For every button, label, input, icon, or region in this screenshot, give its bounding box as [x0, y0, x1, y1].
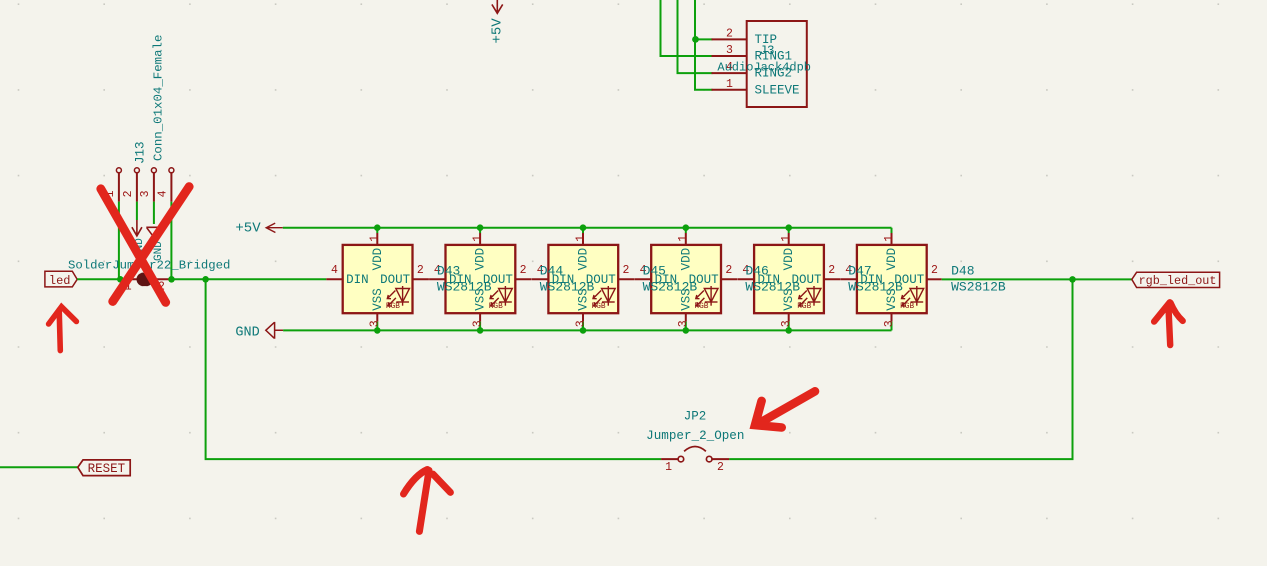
- wire: RESET: [0, 466, 78, 468]
- svg-text:2: 2: [726, 28, 733, 41]
- annotation: red arrow at rgb_led_out: [1154, 302, 1183, 345]
- wire: +5V rail: [283, 227, 892, 229]
- svg-text:1: 1: [665, 461, 672, 474]
- svg-text:Conn_01x04_Female: Conn_01x04_Female: [151, 35, 165, 161]
- svg-text:J13: J13: [133, 141, 147, 164]
- wire: JP2 to rgb_led_out net: [729, 279, 1072, 459]
- svg-text:2: 2: [417, 264, 424, 277]
- LED D48 WS2812B: [841, 228, 1006, 331]
- junction: JP1 pin2/J13 pin4: [168, 276, 175, 283]
- junction: +5V rail at D47: [785, 224, 792, 231]
- svg-text:2: 2: [725, 264, 732, 277]
- wire: J13 pin1 to led net: [118, 202, 120, 280]
- svg-text:1: 1: [471, 235, 484, 242]
- connector J13 Conn_01x04_Female: [104, 35, 174, 202]
- wire: junction to TIP: [695, 38, 713, 40]
- svg-text:VSS: VSS: [371, 288, 385, 311]
- svg-text:1: 1: [726, 78, 733, 91]
- svg-text:RGB: RGB: [386, 303, 400, 311]
- wire: jumper JP1 to LED chain DIN: [170, 278, 326, 280]
- junction: +5V rail at D45: [580, 224, 587, 231]
- svg-text:2: 2: [122, 190, 135, 197]
- wire: D48 DOUT to rgb_led_out: [942, 278, 1132, 280]
- svg-text:WS2812B: WS2812B: [437, 280, 492, 295]
- svg-text:JP2: JP2: [684, 410, 707, 424]
- svg-text:+5V: +5V: [490, 18, 506, 44]
- LED D46 WS2812B: [635, 228, 800, 331]
- junction: GND rail at D45: [580, 327, 587, 334]
- svg-text:WS2812B: WS2812B: [951, 280, 1006, 295]
- power GND on J13 pin3 (open triangle down): [146, 227, 165, 261]
- junction: +5V rail at D46: [683, 224, 690, 231]
- global label RESET: [78, 460, 130, 476]
- annotation: red arrow at JP2: [755, 391, 815, 427]
- LED D43 WS2812B: [326, 228, 491, 331]
- junction: led net to bottom wire: [202, 276, 209, 283]
- solder jumper JP1 SolderJumper22_Bridged: [68, 259, 230, 294]
- junction: TIP/SLEEVE net: [692, 36, 699, 43]
- svg-text:D46: D46: [745, 264, 768, 279]
- global label rgb_led_out: [1132, 272, 1220, 288]
- junction: led/JP1 pin1/J13 pin1: [117, 276, 124, 283]
- svg-text:3: 3: [369, 320, 382, 327]
- svg-text:1: 1: [677, 235, 690, 242]
- wire: net to SLEEVE: [695, 0, 713, 90]
- svg-text:3: 3: [726, 44, 733, 57]
- svg-text:3: 3: [780, 320, 793, 327]
- LED D45 WS2812B: [532, 228, 697, 331]
- junction: GND rail at D44: [477, 327, 484, 334]
- svg-text:2: 2: [623, 264, 630, 277]
- svg-text:3: 3: [883, 320, 896, 327]
- wire: J13 pin2 stub: [136, 202, 138, 220]
- svg-text:1: 1: [883, 235, 896, 242]
- svg-text:2: 2: [931, 264, 938, 277]
- svg-text:VDD: VDD: [371, 248, 385, 271]
- svg-text:rgb_led_out: rgb_led_out: [1139, 274, 1217, 288]
- svg-text:J3: J3: [760, 44, 775, 58]
- jumper JP2 Jumper_2_Open: [646, 410, 744, 475]
- svg-text:RGB: RGB: [592, 303, 606, 311]
- connector J3 AudioJack4dpb: [712, 21, 812, 107]
- power GND on J13 pin2 (arrow down): [132, 220, 146, 258]
- svg-text:2: 2: [520, 264, 527, 277]
- svg-text:AudioJack4dpb: AudioJack4dpb: [717, 61, 811, 75]
- power GND (rail, open triangle left): [235, 322, 283, 341]
- LED D44 WS2812B: [429, 228, 594, 331]
- svg-text:4: 4: [331, 264, 338, 277]
- svg-text:VDD: VDD: [885, 248, 899, 271]
- svg-text:D45: D45: [643, 264, 666, 279]
- svg-text:VDD: VDD: [679, 248, 693, 271]
- junction: +5V rail at D43: [374, 224, 381, 231]
- svg-text:D47: D47: [848, 264, 871, 279]
- annotation: red arrow bottom center: [404, 470, 451, 532]
- svg-text:led: led: [49, 274, 71, 288]
- power +5V (top, pointing down): [490, 0, 506, 44]
- annotation: red X over J13: [101, 187, 189, 303]
- svg-text:WS2812B: WS2812B: [745, 280, 800, 295]
- svg-text:RGB: RGB: [694, 303, 708, 311]
- wire: J13 pin4 to led net: [170, 202, 172, 280]
- svg-text:WS2812B: WS2812B: [643, 280, 698, 295]
- svg-text:D43: D43: [437, 264, 460, 279]
- global label led: [45, 271, 77, 288]
- svg-text:3: 3: [139, 190, 152, 197]
- junction: GND rail at D43: [374, 327, 381, 334]
- wire: led label to jumper JP1: [77, 278, 122, 280]
- svg-text:WS2812B: WS2812B: [848, 280, 903, 295]
- svg-text:VDD: VDD: [474, 248, 488, 271]
- wire: net to RING1 (vertical from top): [661, 0, 713, 56]
- svg-text:Jumper_2_Open: Jumper_2_Open: [646, 429, 744, 443]
- svg-text:4: 4: [157, 190, 170, 197]
- svg-text:DOUT: DOUT: [380, 273, 411, 287]
- svg-text:RGB: RGB: [797, 303, 811, 311]
- svg-text:2: 2: [717, 461, 724, 474]
- wire: J13 pin3 stub: [153, 202, 155, 224]
- svg-text:RESET: RESET: [88, 462, 126, 476]
- power +5V (rail, arrow left): [235, 221, 282, 237]
- svg-text:3: 3: [677, 320, 690, 327]
- svg-text:VDD: VDD: [576, 248, 590, 271]
- svg-text:DIN: DIN: [346, 273, 369, 287]
- wire: net to RING2: [678, 0, 713, 73]
- svg-text:RGB: RGB: [900, 303, 914, 311]
- LED D47 WS2812B: [738, 228, 903, 331]
- svg-text:3: 3: [471, 320, 484, 327]
- svg-text:1: 1: [369, 235, 382, 242]
- svg-text:VDD: VDD: [782, 248, 796, 271]
- junction: GND rail at D46: [683, 327, 690, 334]
- svg-text:+5V: +5V: [235, 221, 261, 237]
- junction: GND rail at D47: [785, 327, 792, 334]
- svg-text:3: 3: [574, 320, 587, 327]
- svg-text:1: 1: [574, 235, 587, 242]
- annotation: red arrow at led label: [49, 307, 77, 351]
- junction: +5V rail at D44: [477, 224, 484, 231]
- wire: led net down and along bottom to JP2: [206, 279, 661, 459]
- svg-text:WS2812B: WS2812B: [540, 280, 595, 295]
- svg-text:D44: D44: [540, 264, 564, 279]
- wire: GND rail: [283, 329, 891, 331]
- svg-text:RGB: RGB: [489, 303, 503, 311]
- svg-text:1: 1: [780, 235, 793, 242]
- junction: rgb_led_out to bottom wire: [1069, 276, 1076, 283]
- svg-text:SLEEVE: SLEEVE: [755, 83, 800, 97]
- svg-text:GND: GND: [235, 325, 259, 340]
- svg-text:D48: D48: [951, 264, 974, 279]
- svg-text:2: 2: [828, 264, 835, 277]
